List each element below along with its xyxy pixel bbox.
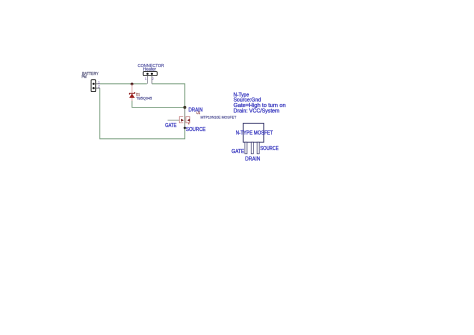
diode D1 top pin [131,84,133,93]
svg-text:N-TYPE MOSFET: N-TYPE MOSFET [236,131,274,137]
connector J2 HEATER body [143,72,157,76]
connector J1 BATTERY pin 2 [93,87,95,89]
svg-text:Heater: Heater [143,67,157,72]
connector J2 HEATER pin 2 [151,73,153,75]
wire: mosfet drain/source vertical through symbol [184,107,186,128]
wire: diode anode down and right to drain node [132,101,185,108]
transistor Q1 left arrow [181,119,184,122]
svg-text:GATE: GATE [232,149,245,155]
transistor Q1 left box (gate/channel) [179,117,183,123]
transistor Q1 right arrow [187,119,190,122]
diode D1 bottom pin [131,98,133,101]
svg-text:1: 1 [145,77,147,81]
wire VCC top: battery pin1 to heater pin1 [100,83,147,85]
package TO-220 body [243,123,264,142]
connector J2 HEATER pin 1 [146,73,148,75]
diode D1 schottky cathode bar [129,92,134,95]
node: drain junction [183,106,186,109]
svg-text:Pwr: Pwr [82,74,88,79]
transistor Q1 right box (drain-source bracket) [186,117,190,123]
svg-text:MTP10N10E MOSFET: MTP10N10E MOSFET [201,115,237,120]
package TO-220 leg 2 DRAIN [251,142,253,154]
package TO-220 leg 3 SOURCE [257,142,259,154]
connector J1 BATTERY pin stubs [96,83,100,85]
wire GND loop: battery pin2 down, bottom, up to source [100,88,185,139]
svg-text:GATE: GATE [165,123,177,129]
transistor Q1 tail [188,123,190,125]
svg-text:2: 2 [98,85,100,89]
node: source junction [184,127,186,129]
wire: mosfet gate lead [168,119,180,121]
package TO-220 leg 1 GATE [245,142,247,154]
svg-text:TB5Q045: TB5Q045 [136,95,152,100]
svg-text:SOURCE: SOURCE [186,127,206,133]
svg-text:DRAIN: DRAIN [245,156,260,162]
diode D1 anode triangle [129,94,135,98]
connector J1 BATTERY body [91,80,96,92]
connector J1 BATTERY pin 1 [93,83,95,85]
wire: heater pin2 right and down to drain node [152,84,185,108]
node: diode cathode / VCC junction [131,83,134,86]
svg-text:2: 2 [152,77,154,81]
svg-text:SOURCE: SOURCE [260,146,279,152]
connector J2 HEATER pin stubs [147,76,149,84]
svg-text:Drain: VCC/System: Drain: VCC/System [234,109,280,115]
